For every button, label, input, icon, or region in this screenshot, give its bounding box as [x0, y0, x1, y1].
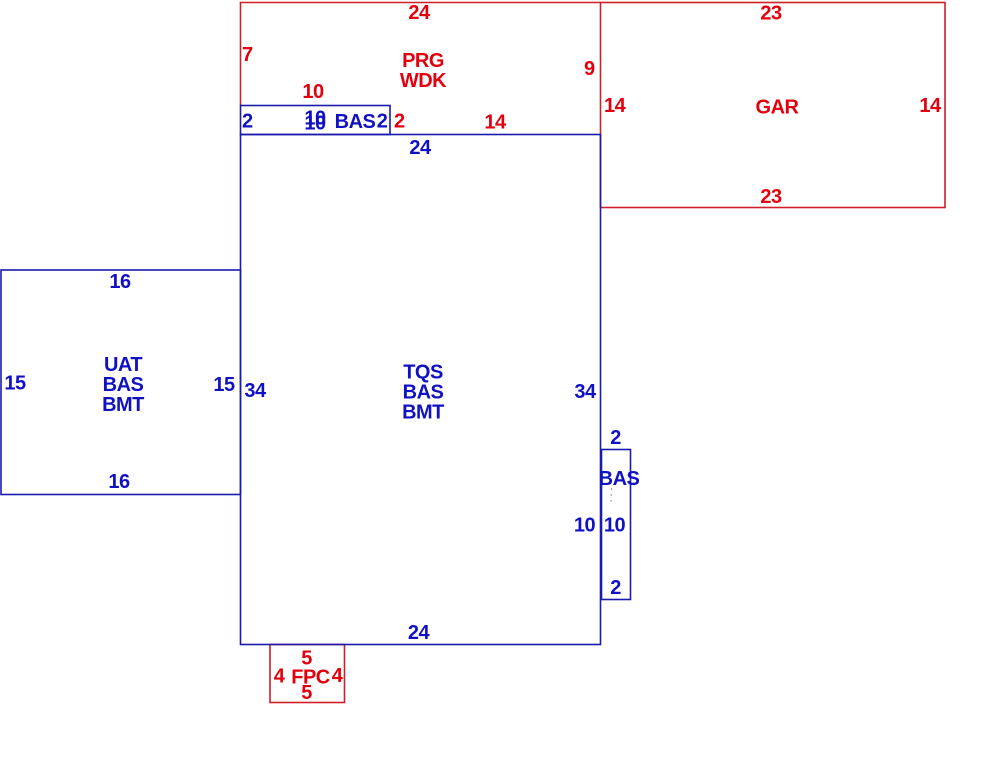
faint dotted mark [610, 488, 613, 502]
svg-text:WDK: WDK [400, 70, 447, 92]
UAT addition outline (blue rect, left) [1, 270, 241, 495]
svg-text:23: 23 [760, 186, 782, 208]
svg-text:4: 4 [274, 666, 286, 688]
svg-text:BMT: BMT [102, 394, 144, 416]
FPC porch outline (red rect, bottom) [270, 645, 345, 703]
svg-text:14: 14 [604, 95, 627, 117]
svg-text:15: 15 [213, 374, 235, 396]
svg-text:2: 2 [242, 111, 253, 133]
svg-text:23: 23 [760, 3, 782, 25]
svg-text:BAS: BAS [403, 382, 444, 404]
svg-text:4: 4 [332, 665, 344, 687]
svg-text:10: 10 [304, 113, 326, 135]
svg-text:10: 10 [604, 515, 626, 537]
svg-text:2: 2 [377, 111, 388, 133]
PRG WDK outline (red: left + top edges) [241, 3, 601, 106]
svg-text:BAS: BAS [599, 468, 640, 490]
small BAS box top (blue rect) [241, 106, 391, 135]
svg-text:7: 7 [242, 44, 253, 66]
garage GAR outline (red rect) [601, 3, 946, 208]
svg-text:TQS: TQS [403, 362, 443, 384]
svg-text:24: 24 [408, 2, 431, 24]
main TQS outline (blue rect) [241, 135, 601, 645]
svg-text:34: 34 [244, 380, 267, 402]
svg-text:14: 14 [919, 95, 942, 117]
svg-text:GAR: GAR [756, 97, 800, 119]
svg-text:2: 2 [610, 577, 621, 599]
svg-text:5: 5 [301, 682, 312, 704]
svg-text:24: 24 [408, 622, 431, 644]
svg-text:2: 2 [394, 111, 405, 133]
svg-text:14: 14 [484, 112, 507, 134]
svg-text:16: 16 [108, 471, 130, 493]
svg-text:BMT: BMT [402, 402, 444, 424]
right BAS bump-out outline (blue rect) [602, 450, 631, 600]
svg-text:9: 9 [584, 58, 595, 80]
svg-text:BAS: BAS [103, 374, 144, 396]
svg-text:UAT: UAT [104, 354, 142, 376]
svg-text:2: 2 [610, 427, 621, 449]
svg-text:16: 16 [109, 271, 131, 293]
svg-text:10: 10 [574, 515, 596, 537]
svg-text:15: 15 [4, 373, 26, 395]
svg-text:BAS: BAS [335, 111, 376, 133]
svg-text:10: 10 [302, 81, 324, 103]
svg-text:PRG: PRG [402, 50, 444, 72]
svg-text:34: 34 [574, 381, 597, 403]
svg-text:24: 24 [409, 137, 432, 159]
